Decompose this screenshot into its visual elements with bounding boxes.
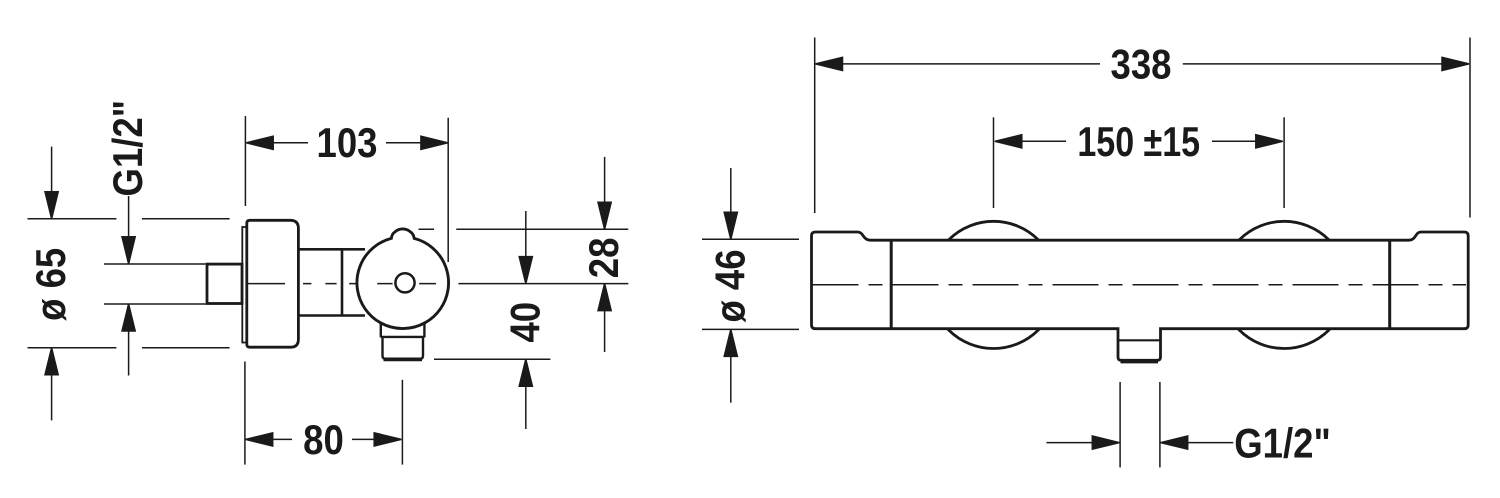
svg-text:G1/2": G1/2" — [105, 100, 152, 197]
spout heavy bottom edge — [384, 358, 423, 361]
dimension 150 ±15: dimension line with outward arrows — [996, 140, 1283, 142]
dimension ø65: lower dimension line with up arrow — [51, 348, 53, 421]
dimension 40: lower arrow — [525, 359, 527, 429]
dimension G1/2 inlet: bottom extension line — [104, 303, 206, 305]
spout lower section — [383, 337, 424, 358]
handle divider left — [890, 240, 893, 329]
dimension 150 ±15: right extension line — [1283, 117, 1285, 208]
svg-text:338: 338 — [1111, 41, 1172, 88]
outlet heavy bottom edge — [1121, 360, 1159, 363]
dimension 80: left extension line — [244, 362, 246, 465]
dimension G1/2 outlet: right extension line — [1159, 382, 1161, 467]
dimension G1/2 outlet: left extension line — [1119, 382, 1121, 467]
dimension ø46: lower dimension line with up arrow — [730, 329, 732, 402]
center line (dash-dot) of left view — [247, 283, 437, 285]
svg-text:40: 40 — [502, 302, 549, 343]
dimension 80: dimension line with outward arrows — [246, 438, 402, 440]
knob center circle — [395, 273, 414, 292]
spout upper section — [381, 318, 425, 337]
knob circle with grip bump — [357, 229, 449, 329]
extension line bottom of spout (40) — [434, 358, 550, 360]
dimension G1/2 inlet: upper dimension line with down arrow — [128, 196, 130, 264]
svg-text:103: 103 — [317, 120, 378, 167]
wall pipe G1/2 — [207, 264, 242, 303]
dimension 80: right extension line — [401, 380, 403, 465]
dimension ø65: upper dimension line with down arrow — [51, 147, 53, 219]
right escutcheon circle — [1221, 221, 1348, 348]
handle divider right — [1388, 240, 1391, 329]
left escutcheon circle — [930, 221, 1057, 348]
mixer bar body with handles and outlet silhouette — [812, 232, 1469, 360]
dimension 338: left extension line — [814, 38, 816, 214]
svg-text:150 ±15: 150 ±15 — [1077, 119, 1200, 166]
flange lip — [242, 227, 247, 343]
escutcheon flange ø65 — [247, 220, 299, 347]
dimension 103: right extension line — [447, 118, 449, 262]
dimension ø65: top extension line — [28, 218, 230, 220]
dimension 28: upper arrow — [604, 157, 606, 229]
dimension 338: right extension line — [1469, 38, 1471, 218]
dimension 103: dimension line with outward arrows — [247, 142, 448, 144]
dimension ø46: top extension line — [702, 238, 799, 240]
svg-text:ø 46: ø 46 — [707, 249, 754, 322]
dimension 338: dimension line with outward arrows — [816, 63, 1469, 65]
valve body divider — [341, 249, 344, 315]
extension line (28/40 common, centerline level) — [458, 283, 628, 285]
dimension G1/2 outlet: right arrow line — [1163, 442, 1234, 444]
dimension G1/2 inlet: lower dimension line with up arrow — [128, 304, 130, 376]
dimension G1/2 inlet: top extension line — [104, 263, 206, 265]
dimension 28: lower arrow — [604, 284, 606, 352]
svg-text:ø 65: ø 65 — [28, 248, 75, 321]
valve body top line — [298, 248, 365, 251]
center line (dash-dot) of right view — [813, 284, 1467, 286]
dimension G1/2 outlet: left arrow line — [1046, 442, 1118, 444]
svg-text:28: 28 — [581, 238, 628, 279]
dimension 150 ±15: left extension line — [993, 117, 995, 208]
extension line top of knob (28) — [419, 228, 629, 230]
svg-text:80: 80 — [303, 416, 344, 463]
dimension ø65: bottom extension line — [28, 347, 230, 349]
dimension 103: left extension line — [244, 116, 246, 206]
valve body bottom line — [298, 314, 365, 317]
dimension ø46: bottom extension line — [702, 328, 799, 330]
dimension 40: upper arrow — [525, 211, 527, 284]
svg-text:G1/2": G1/2" — [1234, 420, 1331, 467]
outlet inner line — [1118, 339, 1161, 341]
dimension ø46: upper dimension line with down arrow — [730, 168, 732, 239]
